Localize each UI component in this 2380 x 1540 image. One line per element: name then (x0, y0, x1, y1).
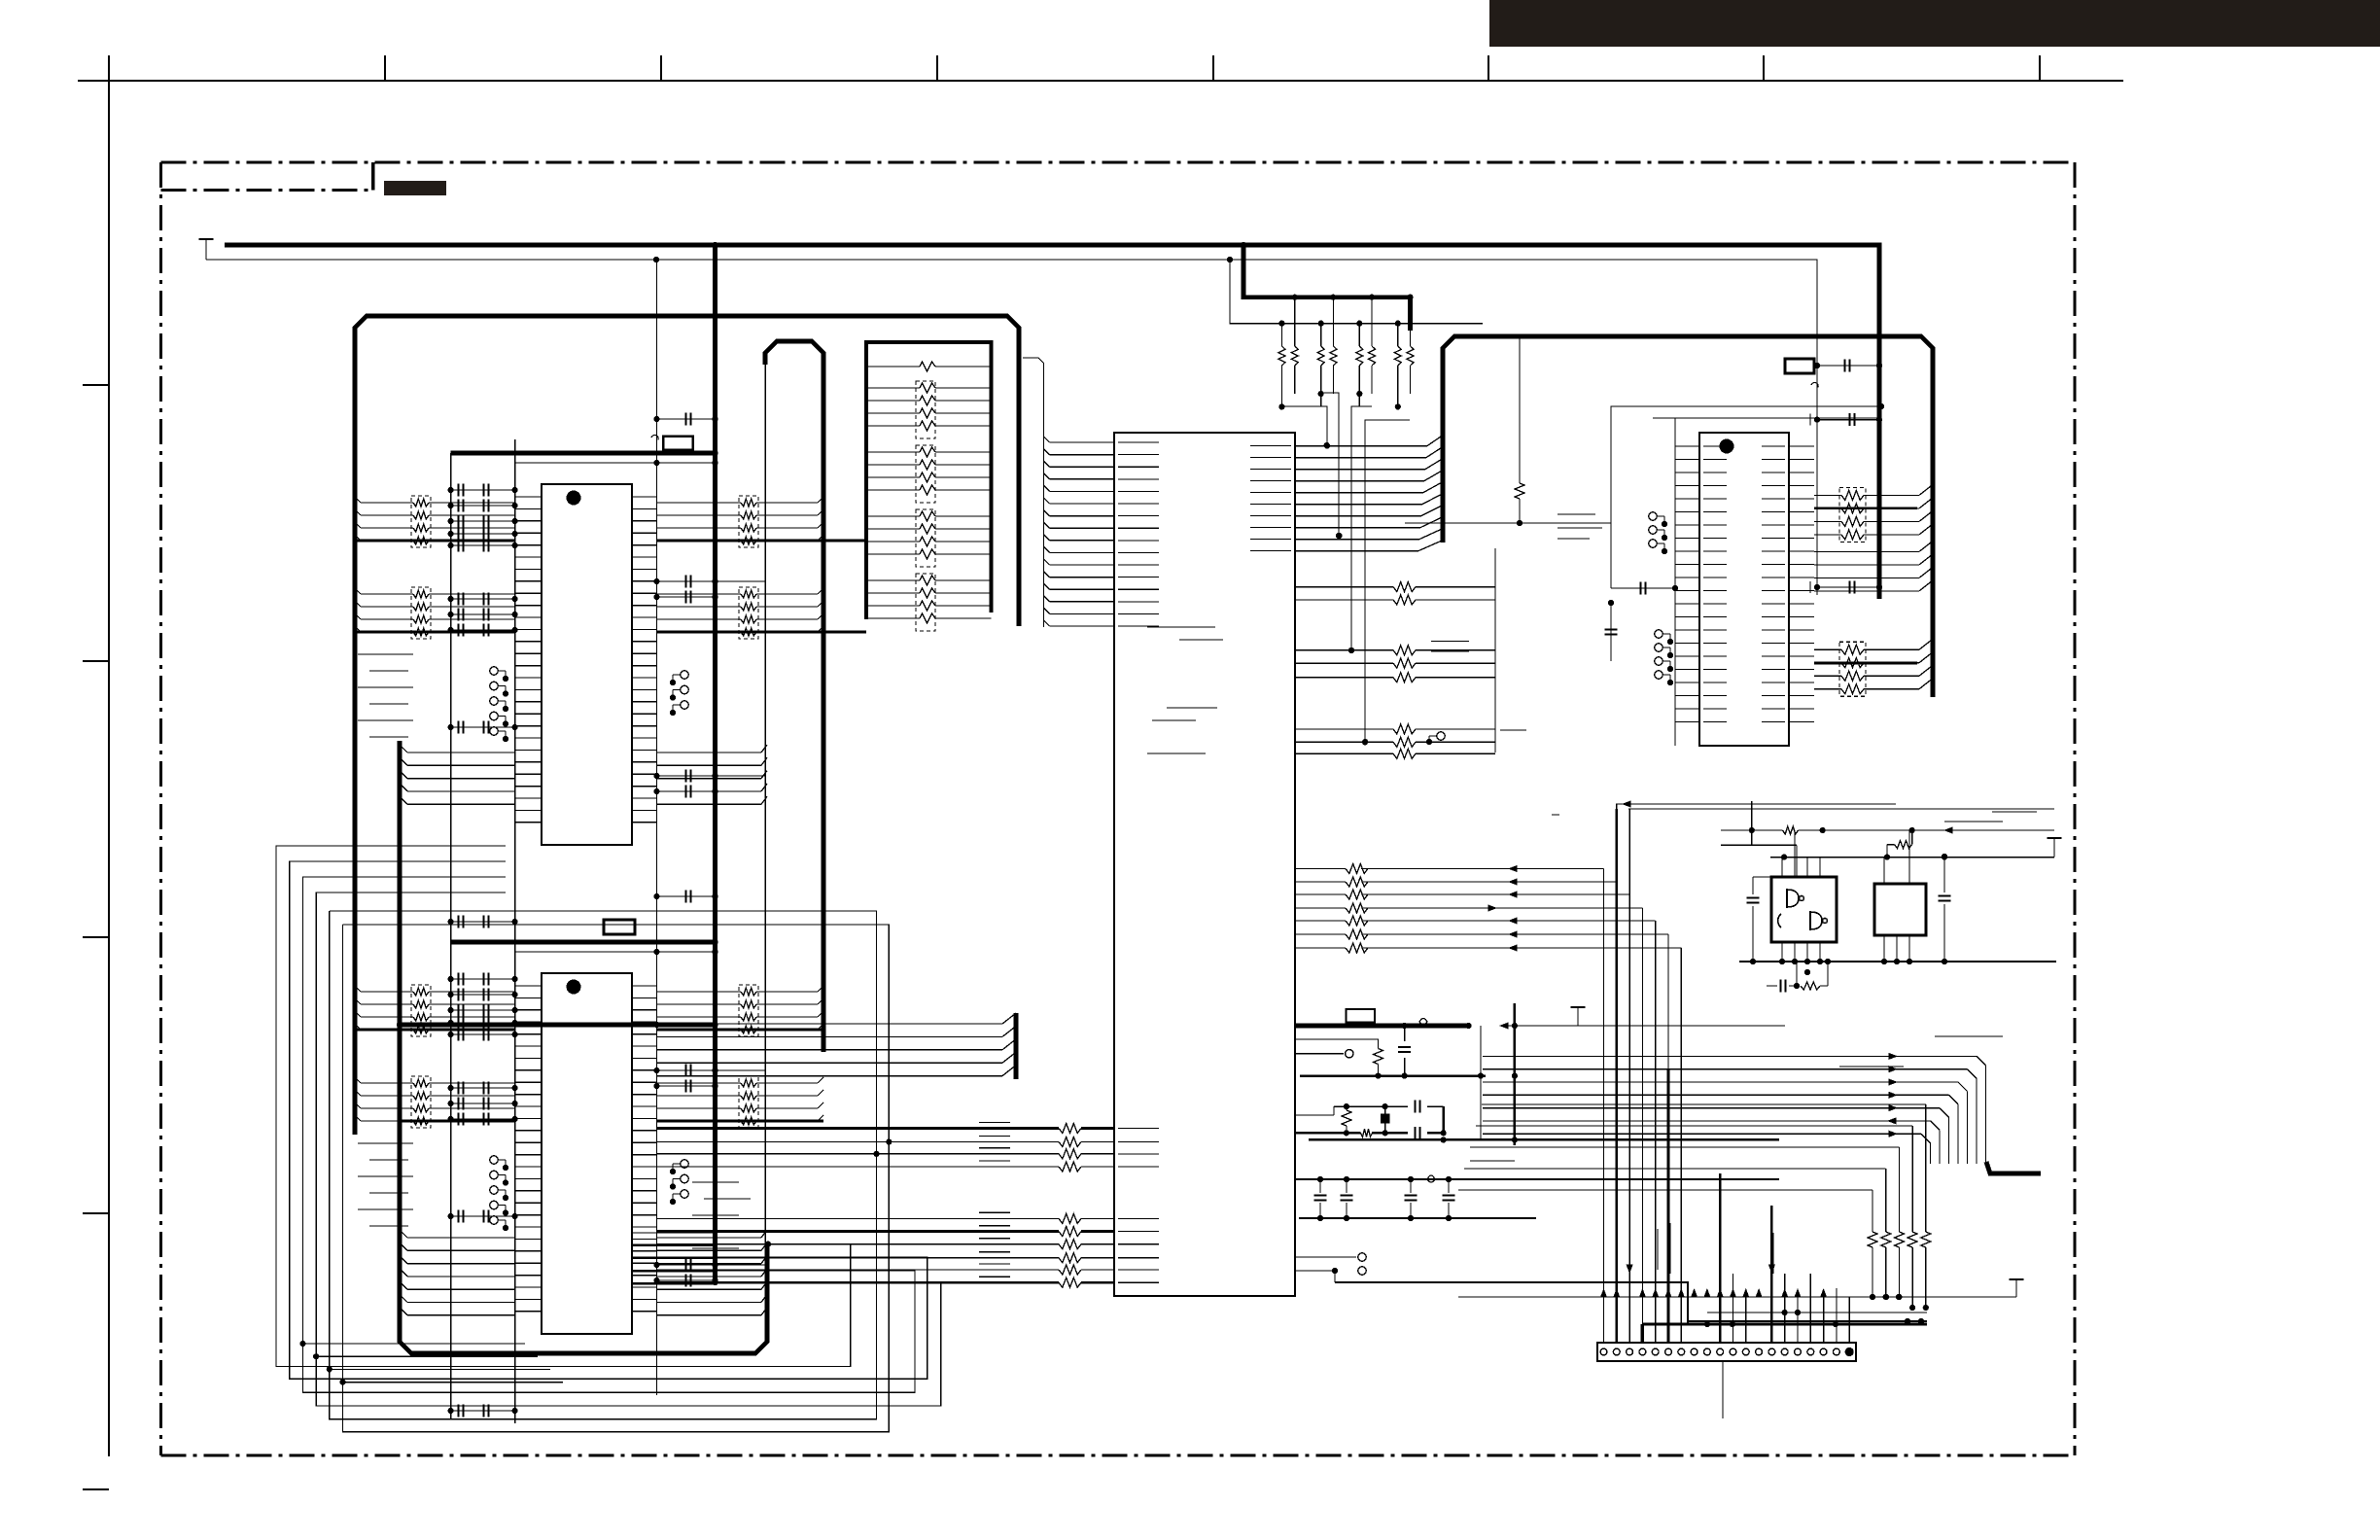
net label top right (1944, 812, 2037, 822)
bus rail cap feed thin x529 (514, 439, 516, 1423)
wire thin feed U2 y979 (515, 951, 716, 953)
net labels U2 right (692, 1182, 751, 1248)
ground T3 (2010, 1279, 2024, 1297)
resistor array U1 x425 g19 (355, 496, 515, 547)
wire bottom collect y1334 (1872, 1296, 2016, 1298)
ferrite curl X1 (1811, 383, 1818, 388)
wire thin feed y476 (515, 462, 716, 464)
series resistor column staple (866, 342, 992, 619)
wire VREF thin top rail (206, 260, 1817, 595)
U4 right plain rows (1814, 541, 1933, 591)
bus rail thin x675 long (655, 260, 657, 1395)
wire y1106 thick (1300, 1074, 1486, 1076)
wire y854 gates feed (1721, 801, 2054, 877)
resistor array U4 right g0 (1814, 484, 1933, 542)
junction dots mid resistors (1324, 443, 1368, 746)
U4 pin1 dot (1720, 439, 1734, 454)
net label dash y1194 (1470, 1160, 1515, 1162)
crystal box X1 (1785, 359, 1814, 373)
cap bank capacitors (1314, 1176, 1455, 1221)
bus thick row U4 arrays (1814, 508, 1917, 663)
net label bus mid (1839, 1036, 2003, 1067)
cap C30 (1605, 603, 1618, 661)
resistor network pullups R1-R8 (1278, 297, 1414, 407)
U1 right pin wires (632, 497, 656, 822)
bus mid wires (1483, 1056, 2041, 1173)
junction dots y854 (1749, 827, 1915, 833)
U6 pins (1881, 830, 1912, 964)
bus corner top x847 (765, 341, 823, 1052)
U3 interior labels (1147, 627, 1223, 753)
U2 pin1 dot (567, 980, 581, 995)
ferrite bead FB3 (1427, 1175, 1435, 1182)
U3 left pin fan upper (1023, 358, 1114, 627)
ferrite curl U1 (651, 436, 658, 440)
U5 pins top (1782, 830, 1820, 877)
junction dots U1 caps (448, 487, 518, 925)
ferrite bead FB2 (1419, 1019, 1427, 1026)
cap C51 right of U6 (1939, 854, 1951, 964)
bus loop right thick (1443, 336, 1933, 697)
decoupling capacitors U2 left column (451, 973, 515, 1417)
ferrite label box FB1 (663, 437, 692, 450)
cap crystal to rail (1814, 360, 1882, 372)
wire y1055 right segment with arrow (1508, 1025, 1785, 1027)
connector right thin risers (1733, 1274, 1850, 1343)
U4 left pin stubs (1675, 446, 1699, 722)
bus thick row U1 g1 (355, 539, 866, 542)
left ruler line (108, 55, 110, 1456)
wire y881 feed (1770, 857, 2054, 858)
cap rows right rail x1933 (1810, 413, 1882, 593)
connector thick bus risers (1617, 809, 1772, 1343)
connector J1 body (1597, 1343, 1856, 1361)
top ruler line (78, 80, 2123, 82)
wire y1173 thick (1309, 1138, 1779, 1140)
bus rows arrows (1488, 865, 1518, 952)
riser x1558 thick (1514, 1003, 1516, 1145)
DSP IC U3 (1114, 433, 1295, 1296)
riser x1523 (1480, 1026, 1482, 1139)
bus thick row U2 g2 (400, 1119, 823, 1122)
junction dots U2 right caps (653, 1067, 717, 1283)
connector feed bar (1642, 1324, 1927, 1343)
gate IC U5 (1771, 877, 1837, 942)
wire thick feed U2 y969 (451, 940, 716, 945)
wire bottom rail thick y1359 (1688, 1320, 1927, 1322)
wire top arrow line (1616, 804, 2054, 809)
decoupling capacitors U2 right column (656, 1065, 765, 1287)
wire pullup bottoms interconnect (1281, 393, 1410, 742)
wire VDD thick top rail (225, 245, 1879, 599)
ground T2 (1571, 1007, 1586, 1026)
wire thick feed y1054 left (400, 1023, 716, 1028)
U2 right pin wires (632, 986, 656, 1312)
U2 lower bus rows (400, 1230, 767, 1315)
crystal bottom rail (1295, 1106, 1444, 1133)
bus rail vertical x735 VDD drop (713, 245, 717, 1282)
U1 lower bus rows (400, 745, 767, 804)
U3 right pin fan upper (1295, 436, 1443, 551)
series resistor column dashed boxes (916, 381, 935, 631)
net labels U3 left lower (979, 1123, 1010, 1277)
test points U1 left (490, 667, 508, 742)
U1 pin1 dot (567, 491, 581, 506)
wire y1350 resistor bottoms (1707, 1312, 1927, 1313)
decoupling capacitors U1 right column (656, 576, 765, 798)
test points U2 left (490, 1156, 508, 1231)
resistor array U1 x425 g113 (355, 587, 515, 639)
junction dots y1055 (1402, 1023, 1472, 1029)
net labels U2 (358, 1143, 413, 1226)
power node T1 (199, 239, 214, 260)
bus stub x1045 lower (1014, 1013, 1019, 1079)
bus rail thin x787 (764, 360, 766, 1244)
memory IC U1 (542, 484, 632, 845)
U2 loop exit rows (632, 1233, 716, 1284)
RC under U5 (1767, 959, 1831, 993)
resistor R30 vertical (1295, 1039, 1383, 1076)
junction dots pullup rails (1278, 295, 1413, 327)
regulator IC U6 (1874, 884, 1926, 935)
U4 pin name strokes (1703, 446, 1785, 722)
wire y1319 thick (1335, 1282, 1688, 1324)
cap bank rails (1295, 1179, 1779, 1218)
resistor R20 left of U4 (1405, 336, 1611, 526)
net labels U1 (358, 654, 413, 737)
ground rail thick y989 (1739, 961, 2056, 962)
capacitor C1 top row (656, 413, 715, 426)
cap C50 left of U5 (1747, 877, 1772, 962)
bus rows vertical risers extra (1617, 804, 1629, 1343)
U5 gate symbols (1778, 890, 1828, 929)
bus rail cap feed thin x463 (450, 453, 452, 1419)
test points U4 left col2 (1655, 630, 1673, 685)
resistor array U2 x425 g113 (355, 1076, 515, 1128)
junction dots on top rails (653, 242, 1246, 262)
test point pair TP30 (1295, 1253, 1366, 1282)
bus thick row U2 g1 (355, 1028, 823, 1031)
label strokes near connector (1658, 1223, 1773, 1274)
series resistor column resistors (866, 362, 992, 623)
bus thick row U1 g2 (355, 630, 866, 633)
junction dots U3 lower rows (712, 1125, 771, 1285)
connector riser arrows (1600, 1265, 1827, 1298)
test points U4 left col1 (1649, 512, 1667, 554)
title logo block (384, 181, 446, 195)
cap C40 vertical (1398, 1026, 1411, 1076)
wire below connector (1722, 1361, 1724, 1418)
bundle mid taps (302, 1344, 563, 1382)
resistor array U2 x762 g19 (656, 985, 823, 1036)
ground rail x1538 (1494, 548, 1496, 752)
bus lower staircase with series resistors (1458, 1104, 1931, 1308)
resistor R40 above U6 (1887, 830, 1912, 857)
net labels U3 right mid (1431, 642, 1526, 731)
bus loop L2 inner (400, 741, 767, 1353)
decoupling capacitors U1 left column (451, 484, 515, 928)
U2 left pin wires (515, 986, 542, 1312)
U4 right pin stubs (1789, 446, 1814, 722)
crystal cluster Y1 (1295, 1101, 1444, 1134)
wire thick feed y466 (451, 451, 716, 456)
junction dots pullup bottom (1278, 391, 1401, 745)
U1 left pin wires (515, 497, 542, 822)
resistor bank dots (1870, 1294, 1929, 1311)
resistor array U4 right g1 (1814, 639, 1933, 696)
resistor array U2 x425 g19 (355, 985, 515, 1036)
junction dots y1106 (1375, 1073, 1484, 1079)
junction dots U2 caps (448, 976, 518, 1414)
connector J1 pins (1600, 1347, 1854, 1356)
U3 left lower pin resistors (656, 1124, 1114, 1288)
label box near clock (1346, 1009, 1375, 1023)
resistor array U1 x762 g113 (656, 587, 823, 639)
junction dots crystal bottom (1344, 1130, 1447, 1142)
flash IC U4 (1699, 433, 1789, 746)
wire pullup feed thick (1243, 245, 1411, 331)
test points U2 right (670, 1160, 688, 1205)
label box U2 top (604, 920, 635, 934)
wire U4 bottom cap row (1608, 582, 1678, 747)
board outline notch joint (371, 162, 374, 191)
wire pullup feed thin (1230, 260, 1483, 324)
top ruler ticks (385, 55, 2040, 81)
bus mid arrows (1887, 1053, 1898, 1137)
U5 pins bottom (1782, 942, 1820, 962)
resistor array U1 x762 g19 (656, 496, 823, 547)
wire thick y1055 left segment (1295, 1024, 1469, 1029)
crystal bottom resistor and cap (1361, 1127, 1420, 1139)
board outline dash-dot frame (161, 162, 2076, 1455)
title header bar (1489, 0, 2380, 47)
memory IC U2 (542, 973, 632, 1334)
U2 to bus fan (656, 1013, 1016, 1076)
bus bundle left nested wires (276, 846, 941, 1432)
test point TP20 row (1295, 1050, 1353, 1058)
bundle junction dots (873, 1138, 892, 1157)
thin staple around IC3 (1611, 403, 1884, 588)
bus loop L1 left leg (355, 316, 1019, 1135)
resistor array U2 x762 g113 (656, 1076, 823, 1128)
left ruler ticks (83, 385, 109, 1489)
junction dots U1 right caps (653, 578, 717, 794)
bus rows wires (1295, 864, 1681, 1344)
U3 right mid resistors (1295, 582, 1495, 759)
test points U1 right (670, 671, 688, 716)
cap row above U2 (656, 891, 715, 903)
U3 pin name text strokes (1118, 442, 1291, 1282)
net labels U4 left (1552, 514, 1602, 815)
thin feed IC3 x1723 (1653, 418, 1881, 746)
ground T4 (2047, 838, 2062, 857)
test point TP10 (1426, 732, 1445, 745)
